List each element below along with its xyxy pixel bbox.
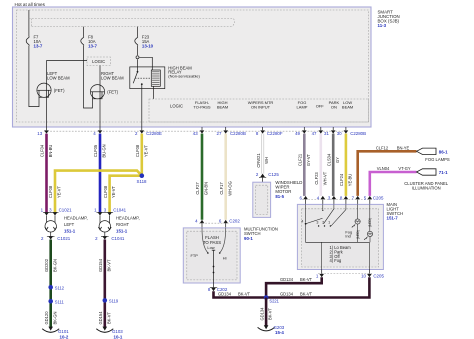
wire VLN04 VT-GY switch pin5 to cluster illumination	[370, 172, 417, 196]
svg-text:BK-VT: BK-VT	[238, 291, 251, 296]
svg-text:BK-GN: BK-GN	[52, 311, 57, 324]
svg-text:C205: C205	[373, 195, 384, 200]
svg-text:YE-VT: YE-VT	[111, 185, 116, 198]
headlamp left connector pins 1 and 3	[43, 211, 59, 213]
svg-text:151-1: 151-1	[64, 229, 76, 234]
ground G103	[103, 327, 108, 331]
SJB pin 49 exit arrow	[303, 127, 305, 130]
wire CLS34 GY pin31 to switch pin3	[332, 134, 335, 196]
bus: dashed power rail B	[32, 26, 233, 28]
fuse F23 15A 13-10	[135, 37, 138, 46]
logic sub-box at bottom of SJB	[149, 99, 369, 122]
svg-text:C2280E: C2280E	[146, 131, 162, 136]
svg-text:BK-VT: BK-VT	[300, 291, 313, 296]
svg-text:4) Fog: 4) Fog	[330, 258, 343, 263]
wire: F23 output to junction	[137, 50, 139, 55]
svg-text:CLF27: CLF27	[195, 182, 200, 195]
wire GD134 BK-VT flash-to-pass to splice S221 and switch pin10	[214, 277, 370, 297]
svg-text:C1021: C1021	[57, 236, 70, 241]
wire: left FET drain to pin 13	[46, 97, 48, 127]
svg-text:OFF: OFF	[316, 104, 325, 109]
windshield wiper motor box	[253, 182, 271, 217]
wire: F8 output to right FET source	[84, 50, 93, 108]
SJB pin 8 exit arrow	[262, 127, 264, 130]
svg-text:GD154: GD154	[98, 311, 103, 325]
bus: dashed jog left end	[31, 19, 33, 27]
svg-text:Ind: Ind	[345, 233, 350, 238]
svg-text:31: 31	[324, 131, 329, 136]
svg-text:81-5: 81-5	[275, 194, 284, 199]
svg-text:CLF08: CLF08	[48, 185, 53, 198]
svg-text:C205: C205	[373, 274, 384, 279]
headlamp right pin 2 return	[104, 232, 106, 236]
svg-text:(LED): (LED)	[356, 230, 360, 239]
wire CLF08 yellow upper branch to left headlamp	[55, 171, 142, 213]
svg-text:(FET): (FET)	[54, 88, 65, 93]
svg-text:ON INPUT: ON INPUT	[251, 105, 271, 110]
SJB pin 31 exit arrow	[332, 127, 334, 130]
svg-text:13-7: 13-7	[88, 43, 97, 48]
bus: dashed power rail A	[29, 18, 234, 20]
svg-text:CLF05: CLF05	[93, 144, 98, 157]
svg-text:47: 47	[312, 131, 317, 136]
main light switch pins 1 and 10	[318, 273, 372, 275]
svg-text:Hot at all times: Hot at all times	[15, 2, 46, 7]
main light switch rotary contacts	[305, 204, 307, 222]
svg-text:CLF12: CLF12	[376, 145, 389, 150]
svg-text:C125: C125	[268, 172, 279, 177]
wire CLF27 GN-BN pin43 to flash-to-pass	[201, 134, 204, 220]
headlamp right bulb	[99, 216, 101, 228]
svg-text:CRW21: CRW21	[256, 153, 261, 168]
splice S118	[140, 173, 145, 178]
svg-text:30: 30	[337, 131, 342, 136]
wire CLF05 BU-GN pin4 to right headlamp	[99, 134, 102, 213]
LOGIC dashed box (low beam driver)	[87, 57, 111, 66]
svg-text:LOW BEAM: LOW BEAM	[101, 75, 124, 80]
svg-text:GN-BN: GN-BN	[204, 182, 209, 195]
wire: junction to relay contact	[137, 59, 139, 71]
svg-text:GD154: GD154	[98, 258, 103, 272]
svg-text:S221: S221	[269, 299, 279, 304]
svg-text:VT-GY: VT-GY	[398, 166, 411, 171]
ground G203	[264, 325, 269, 329]
wire CLF17 WH-OG pin27 to flash-to-pass	[224, 134, 227, 220]
ground G101	[48, 327, 53, 331]
svg-text:BK-VT: BK-VT	[300, 277, 313, 282]
flash-to-pass switch box	[183, 228, 240, 283]
main light switch box	[297, 204, 383, 269]
wire GD134 BK-VT splice S221 to ground G203	[265, 298, 268, 326]
wire: junction to relay coil	[139, 57, 152, 70]
flash-to-pass contact wires	[202, 228, 208, 253]
svg-text:LEFT: LEFT	[64, 222, 75, 227]
svg-text:CLF08: CLF08	[103, 185, 108, 198]
svg-text:BK-VT: BK-VT	[106, 311, 111, 324]
svg-text:VLN04: VLN04	[377, 166, 390, 171]
headlamp left pin 2 return	[50, 232, 52, 236]
svg-text:BK-GN: BK-GN	[52, 259, 57, 272]
SJB pin 4 exit arrow	[99, 127, 101, 130]
wire CLF21 GY-VT pin49 to switch pin6	[303, 134, 306, 196]
svg-text:C2280B: C2280B	[230, 131, 246, 136]
connector C125 pin 2	[260, 174, 265, 177]
wire: relay coil to logic box	[153, 86, 155, 99]
bus: dashed hook right end	[232, 19, 234, 27]
wire: relay contact output to pin 2	[141, 84, 143, 127]
connector tag 86-1 FOG LAMPS	[417, 148, 437, 154]
svg-text:151-7: 151-7	[387, 216, 399, 221]
svg-text:FOG LAMPS: FOG LAMPS	[425, 157, 450, 162]
svg-text:BK-VT: BK-VT	[106, 259, 111, 272]
svg-text:LOGIC: LOGIC	[170, 104, 183, 109]
wire CRW21 WH pin8 to wiper motor C125	[261, 134, 264, 174]
svg-text:RIGHT: RIGHT	[116, 222, 129, 227]
wire CLF08 yellow lower branch to right headlamp	[110, 176, 142, 213]
svg-text:HEADLAMP,: HEADLAMP,	[64, 216, 88, 221]
svg-text:13-10: 13-10	[142, 43, 154, 48]
headlamp left bulb	[46, 216, 48, 228]
SJB pin 2 exit arrow	[141, 127, 143, 130]
wire CLF34 YE-BU pin30 to switch pin8	[345, 134, 348, 196]
SJB pin 30 exit arrow	[345, 127, 347, 130]
wire: right FET drain to pin 4	[99, 99, 101, 127]
svg-text:GD120: GD120	[44, 311, 49, 325]
svg-text:WH-VT: WH-VT	[322, 171, 327, 185]
svg-text:GD134: GD134	[259, 307, 264, 321]
fuse F8 10A 13-7	[81, 37, 84, 46]
svg-text:C2280B: C2280B	[350, 131, 366, 136]
main light switch internal ground rail	[306, 224, 370, 243]
svg-text:S118: S118	[137, 179, 147, 184]
svg-text:CLF08: CLF08	[135, 144, 140, 157]
svg-text:GD134: GD134	[218, 291, 232, 296]
wire CLF04 BN-BU pin13 to left headlamp	[45, 134, 48, 213]
SJB pin 27 exit arrow	[225, 127, 227, 130]
svg-text:BEAM: BEAM	[217, 105, 228, 110]
svg-text:3: 3	[316, 220, 318, 224]
illumination LED lamp	[369, 204, 371, 231]
svg-text:10-2: 10-2	[60, 334, 69, 339]
svg-text:C2280F: C2280F	[267, 131, 283, 136]
svg-text:CLF21: CLF21	[298, 153, 303, 166]
relay K: high beam relay box	[130, 67, 165, 89]
svg-text:CLF23: CLF23	[314, 172, 319, 185]
svg-text:WH: WH	[264, 157, 269, 164]
svg-text:10-1: 10-1	[114, 334, 123, 339]
Smart Junction Box inner dashed border	[17, 10, 369, 122]
SJB pin 47 exit arrow	[320, 127, 322, 130]
wire CLF23 WH-VT pin47 to switch pin4	[319, 134, 322, 196]
svg-text:(Non-serviceable): (Non-serviceable)	[168, 74, 200, 79]
wire: F23 feed stub	[137, 27, 139, 37]
svg-text:ON: ON	[331, 105, 337, 110]
svg-text:S111: S111	[55, 299, 65, 304]
wire: logic gate line to left FET	[47, 61, 88, 83]
splice S111	[48, 299, 53, 304]
svg-text:CLF24: CLF24	[339, 173, 344, 186]
svg-text:49: 49	[295, 131, 300, 136]
svg-text:YE-VT: YE-VT	[57, 185, 62, 198]
svg-text:13: 13	[37, 131, 42, 136]
svg-text:BN-BU: BN-BU	[48, 145, 53, 158]
svg-text:GY-VT: GY-VT	[306, 153, 311, 166]
svg-text:BN-YE: BN-YE	[397, 145, 410, 150]
svg-text:86-1: 86-1	[439, 149, 448, 154]
svg-text:WH-OG: WH-OG	[227, 181, 232, 196]
svg-text:BU-GN: BU-GN	[102, 144, 107, 157]
svg-text:4: 4	[301, 220, 303, 224]
svg-text:27: 27	[217, 131, 222, 136]
svg-text:TO-PASS: TO-PASS	[193, 105, 211, 110]
svg-text:GD134: GD134	[280, 277, 294, 282]
svg-text:BEAM: BEAM	[342, 105, 353, 110]
svg-text:GD134: GD134	[280, 291, 294, 296]
wire GD134 BK-VT switch pin1 to splice S221	[266, 277, 322, 297]
svg-text:Hi: Hi	[223, 255, 227, 260]
wire GD154 BK-VT right headlamp ground path	[104, 240, 107, 328]
wire: logic gate line to right FET	[99, 66, 101, 85]
svg-text:GY: GY	[335, 157, 340, 163]
wire CLF08 YE-VT pin2 down to splice S118	[141, 134, 144, 176]
svg-text:10: 10	[361, 274, 366, 279]
svg-text:90-1: 90-1	[244, 236, 253, 241]
svg-text:(FET): (FET)	[107, 89, 118, 94]
svg-text:S119: S119	[109, 299, 119, 304]
splice S112	[48, 285, 53, 290]
splice S221	[264, 295, 269, 300]
svg-text:CLF17: CLF17	[219, 182, 224, 195]
svg-text:YE-VT: YE-VT	[143, 144, 148, 157]
svg-text:151-1: 151-1	[116, 229, 128, 234]
transistor right low beam FET	[90, 85, 104, 99]
svg-text:HEADLAMP,: HEADLAMP,	[116, 216, 140, 221]
flash-to-pass switch pins 4 and 6	[200, 220, 205, 223]
wire: F8 feed stub	[83, 27, 85, 37]
wire: F7 output to left FET source	[29, 50, 39, 107]
svg-text:C1041: C1041	[111, 236, 124, 241]
svg-text:ILLUMINATION: ILLUMINATION	[412, 186, 441, 191]
splice S119	[103, 298, 108, 303]
svg-text:15-4: 15-4	[275, 330, 284, 335]
svg-text:FTP: FTP	[191, 253, 199, 258]
svg-text:13-7: 13-7	[34, 43, 43, 48]
SJB pin 43 exit arrow	[201, 127, 203, 130]
svg-text:71-1: 71-1	[439, 170, 448, 175]
svg-text:C1041: C1041	[113, 207, 126, 212]
svg-text:CLF04: CLF04	[40, 144, 45, 157]
wire CLF12 BN-YE switch pin7 to fog lamps	[358, 151, 417, 196]
svg-text:YE-BU: YE-BU	[348, 174, 353, 187]
wire: battery feed into SJB	[28, 10, 30, 37]
svg-text:C202: C202	[229, 219, 240, 224]
relay coil	[151, 70, 160, 86]
fog indicator LED lamp	[357, 204, 359, 219]
node: junction circle below F23	[136, 56, 139, 59]
svg-text:LOW BEAM: LOW BEAM	[47, 75, 70, 80]
connector face dashed line C2280 row	[44, 130, 348, 132]
svg-text:Low: Low	[207, 245, 214, 250]
fuse F7 10A 13-7	[26, 37, 29, 46]
svg-text:1: 1	[328, 220, 330, 224]
svg-text:2: 2	[322, 220, 324, 224]
svg-text:C1021: C1021	[59, 207, 72, 212]
svg-text:LOGIC: LOGIC	[92, 59, 105, 64]
svg-text:(LED): (LED)	[368, 218, 372, 227]
svg-text:BK-VT: BK-VT	[268, 307, 273, 320]
connector tag 71-1 CLUSTER AND PANEL ILLUMINATION	[417, 169, 437, 175]
svg-text:43: 43	[193, 131, 198, 136]
svg-text:CLS34: CLS34	[326, 153, 331, 166]
SJB pin 13 exit arrow	[46, 127, 48, 130]
svg-text:S112: S112	[55, 285, 65, 290]
main light switch pins 6 4 3 8 7 5	[302, 199, 372, 201]
Smart Junction Box outer solid box	[13, 7, 372, 127]
wire GD202 BK-GN left headlamp ground path	[49, 240, 52, 328]
svg-text:LAMP: LAMP	[297, 105, 308, 110]
flash-to-pass pin 8 output	[213, 283, 215, 288]
svg-text:GD202: GD202	[44, 258, 49, 272]
svg-text:11-3: 11-3	[378, 23, 387, 28]
headlamp right connector pins 1 and 3	[97, 211, 114, 213]
transistor left low beam FET	[37, 83, 51, 97]
